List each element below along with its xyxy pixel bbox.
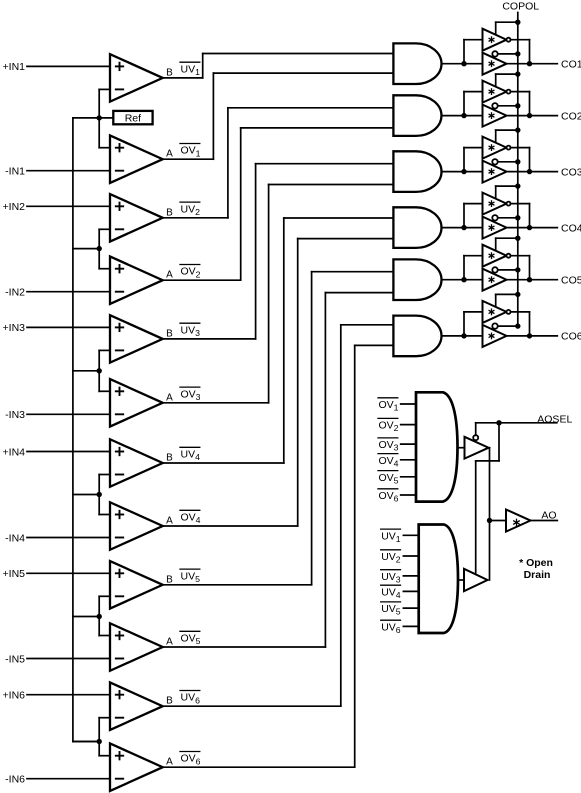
svg-text:CO4: CO4 (561, 222, 581, 234)
svg-text:+IN2: +IN2 (3, 201, 26, 213)
svg-text:+IN6: +IN6 (3, 690, 26, 702)
svg-text:B: B (166, 574, 173, 585)
svg-text:Ref: Ref (125, 113, 141, 125)
svg-text:Drain: Drain (524, 569, 551, 581)
svg-text:-IN6: -IN6 (5, 774, 25, 786)
svg-text:COPOL: COPOL (502, 1, 539, 13)
svg-text:B: B (166, 328, 173, 339)
svg-text:B: B (166, 696, 173, 707)
svg-text:A: A (166, 392, 173, 403)
svg-text:B: B (166, 453, 173, 464)
svg-text:+IN4: +IN4 (3, 446, 26, 458)
svg-text:A: A (166, 757, 173, 768)
svg-text:A: A (166, 270, 173, 281)
svg-text:CO2: CO2 (561, 110, 581, 122)
svg-text:CO5: CO5 (561, 275, 581, 287)
svg-text:-IN1: -IN1 (5, 166, 25, 178)
svg-text:* Open: * Open (519, 557, 553, 569)
svg-text:+IN5: +IN5 (3, 568, 26, 580)
svg-text:-IN4: -IN4 (5, 532, 25, 544)
svg-text:B: B (166, 67, 173, 78)
svg-text:-IN5: -IN5 (5, 653, 25, 665)
svg-text:+IN3: +IN3 (3, 322, 26, 334)
svg-text:B: B (166, 207, 173, 218)
svg-text:AOSEL: AOSEL (537, 413, 572, 425)
svg-text:CO3: CO3 (561, 166, 581, 178)
svg-text:-IN2: -IN2 (5, 287, 25, 299)
svg-text:A: A (166, 516, 173, 527)
svg-text:CO6: CO6 (561, 331, 581, 343)
svg-text:A: A (166, 637, 173, 648)
svg-text:+IN1: +IN1 (3, 61, 26, 73)
svg-text:A: A (166, 149, 173, 160)
svg-text:CO1: CO1 (561, 59, 581, 71)
svg-text:-IN3: -IN3 (5, 409, 25, 421)
svg-text:AO: AO (541, 510, 556, 522)
